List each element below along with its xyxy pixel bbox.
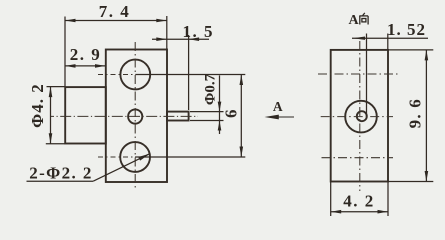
leader 2-phi2.2 underline [27,180,94,182]
left view: top hole circle (phi 2.2) [120,60,150,90]
dim 7.4 left extension line [64,17,66,87]
svg-text:Φ4. 2: Φ4. 2 [28,83,47,128]
dim 1.5 dimension line [152,38,209,40]
dim 7.4 right arrow [156,19,167,23]
dim 4.2 left extension line [330,182,332,217]
dim 1.5 right extension line (pin edge) [188,35,190,110]
left view: main horizontal axis centerline [50,115,198,117]
dim 6 top extension line [135,74,245,76]
dim 1.52 right extension line [387,34,389,50]
dim phi4.2 top extension line [47,86,65,88]
dim 4.2 right extension line [387,182,389,217]
right view: top hole centerline [318,73,399,75]
dim 7.4 left arrow [65,19,76,23]
dim 1.52 left extension line (through circle) [366,34,368,117]
dim phi0.7 bottom extension line [190,120,224,122]
dim 9.6 top arrow [425,50,429,61]
dim phi4.2 bottom extension line [46,143,65,145]
left view: vertical centerline [134,42,136,190]
svg-text:Φ0.7: Φ0.7 [203,73,219,105]
dim phi4.2 bottom arrow [49,133,53,144]
dim 2.9 dimension line [65,65,106,67]
dim phi4.2 top arrow [49,87,53,98]
dim phi0.7 top extension line [190,111,224,113]
hanzi "xiang" glyph drawn as strokes [359,13,368,25]
dim 4.2 right arrow [378,210,389,214]
dim 7.4 dimension line [65,20,167,22]
right view: vertical centerline [359,41,361,191]
svg-text:2. 9: 2. 9 [70,45,102,64]
svg-text:6: 6 [222,110,241,119]
dim 6 bottom arrow [240,147,244,158]
dim 1.5 right arrow (outside, points left) [189,37,200,41]
svg-text:1. 52: 1. 52 [387,20,426,39]
svg-text:1. 5: 1. 5 [183,22,215,41]
dim phi4.2 dimension line [50,87,52,144]
dim 9.6 top extension line [388,49,433,51]
svg-text:2-Φ2. 2: 2-Φ2. 2 [29,164,93,183]
svg-text:A: A [348,13,359,28]
svg-text:4. 2: 4. 2 [343,191,375,210]
left view: center pin outline [167,112,189,121]
dim 2.9 left arrow [65,64,76,68]
right view: big circle [345,101,377,133]
leader 2-phi2.2 arrowhead [138,154,150,161]
right view: bottom hole centerline [322,157,394,159]
left view: bottom hole horizontal centerline [98,156,160,158]
dim 4.2 left arrow [331,210,342,214]
dim 6 bottom extension line [135,156,245,158]
right view: horizontal centerline through circle [321,116,393,118]
left view: top hole horizontal centerline [98,74,160,76]
dim 9.6 dimension line [425,50,427,182]
dim 6 dimension line [240,75,242,158]
left view: bottom hole circle (phi 2.2) [120,142,150,172]
leader 2-phi2.2 line [93,154,150,182]
dim 4.2 dimension line [331,211,388,213]
dim phi0.7 dimension line [219,75,221,134]
svg-text:A: A [273,99,283,114]
right view: plate outline rect [331,50,388,182]
left view: boss cylinder outline [65,87,106,143]
dim 2.9 right arrow [95,64,106,68]
dim 1.52 arrow [353,37,365,40]
left view: middle small circle [128,109,142,123]
svg-text:7. 4: 7. 4 [99,2,131,21]
left view: flange plate outline [106,50,167,183]
dim phi0.7 top arrow (points down) [218,102,222,112]
dim 7.4 right extension line [166,16,168,49]
dim 9.6 bottom arrow [425,171,429,182]
dim 1.5 left arrow (outside, points right) [156,37,167,41]
view direction arrow [268,116,294,118]
dim 9.6 bottom extension line [388,181,433,183]
dim 6 top arrow [240,75,244,86]
dim phi0.7 bottom arrow (points up) [218,121,222,131]
right view: small pin circle [357,111,367,121]
svg-text:9. 6: 9. 6 [406,98,425,128]
dim 1.52 dimension line [352,37,428,39]
